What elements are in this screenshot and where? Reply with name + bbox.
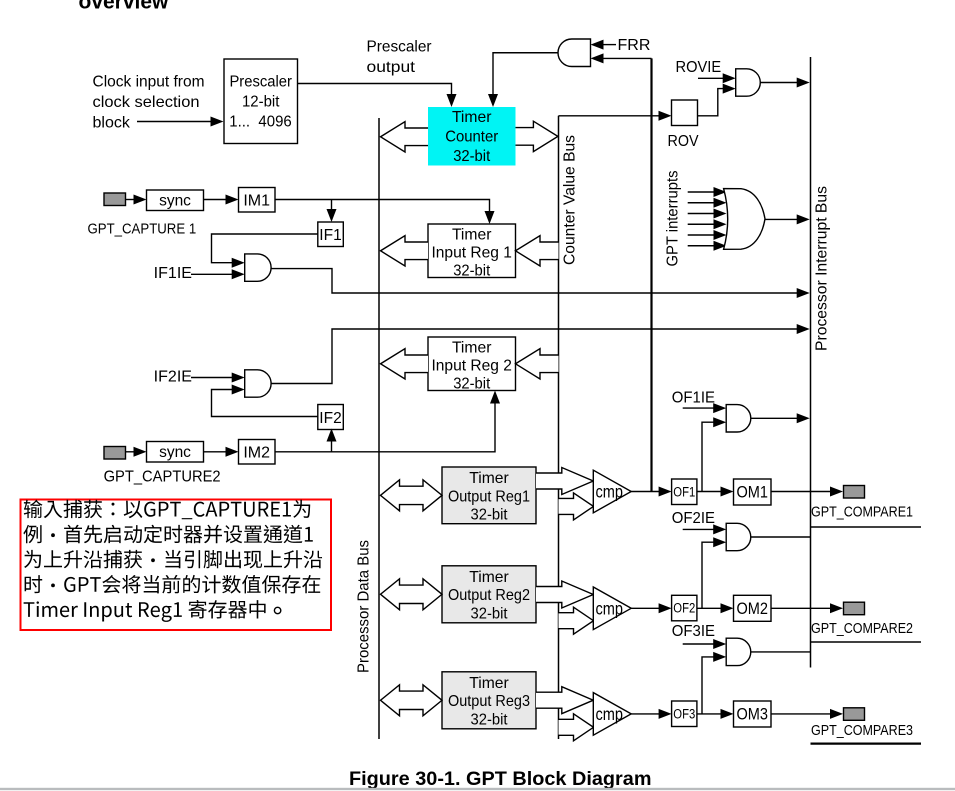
wire OF1 to OM1 xyxy=(697,491,721,493)
wire net-OF1match vertical feedback (x=651.5) xyxy=(650,58,652,491)
svg-text:Counter: Counter xyxy=(445,129,499,146)
svg-text:OM1: OM1 xyxy=(736,484,768,502)
svg-text:Timer: Timer xyxy=(469,569,509,586)
svg-text:ROV: ROV xyxy=(668,133,700,150)
svg-text:cmp: cmp xyxy=(596,482,624,502)
separator line under GPT_COMPARE2 xyxy=(811,641,922,643)
wire IF2IE to and-gate U5 top input xyxy=(191,377,233,379)
box IM1 xyxy=(239,188,276,213)
wire OF2 to OM2 xyxy=(697,607,721,609)
and-gate U6 OF1IE-interrupt xyxy=(726,405,751,432)
wire cmp3 output to OF3 xyxy=(631,713,659,715)
svg-text:GPT_COMPARE3: GPT_COMPARE3 xyxy=(811,722,913,739)
red annotation box xyxy=(21,500,332,631)
svg-text:IM2: IM2 xyxy=(243,445,270,462)
svg-text:32-bit: 32-bit xyxy=(453,148,491,165)
wires GPT interrupt inputs x6 into or-gate U3 xyxy=(688,191,715,193)
box IM2 xyxy=(239,440,276,465)
wire OF2IE label to and-gate U7 top input xyxy=(683,528,714,530)
bus-arrow Counter Value Bus to cmp2 (open, right) xyxy=(559,607,594,634)
bottom page rule (gray) xyxy=(0,788,955,790)
svg-text:Prescaler: Prescaler xyxy=(367,39,433,56)
wire Prescaler output to Timer Counter clk xyxy=(298,84,452,97)
wire FRR label to U1 top input xyxy=(603,44,617,46)
wire cmp2 output to OF2 xyxy=(631,607,659,609)
svg-text:OF1IE: OF1IE xyxy=(672,389,715,406)
wire U3 output to Processor Interrupt Bus xyxy=(765,218,798,220)
wire OF2 feedback to U7 bottom input xyxy=(702,542,714,608)
and-gate U1 FRR-restart (mirrored, faces left) xyxy=(558,39,590,67)
box OF2 (compare flag) xyxy=(672,595,697,621)
annotation text line 5: Timer Input Reg1 寄存器中。 xyxy=(24,600,266,622)
svg-text:cmp: cmp xyxy=(596,599,624,619)
pin GPT_COMPARE3 (gray pad) xyxy=(844,708,865,721)
svg-text:32-bit: 32-bit xyxy=(471,606,509,623)
or-gate U3 GPT-interrupts xyxy=(724,189,765,250)
svg-text:IF2IE: IF2IE xyxy=(154,369,192,386)
wire U7 output to Processor Interrupt Bus xyxy=(751,536,811,538)
bus-arrow Output Reg2 to Processor Data Bus (open, double) xyxy=(381,579,443,610)
wire IF1 to and-gate U4 top input xyxy=(212,234,318,263)
pin GPT_CAPTURE2 (gray pad) xyxy=(104,447,126,460)
annotation text line 3: 为上升沿捕获，当引脚出现上升沿 xyxy=(24,550,322,569)
svg-text:IF2: IF2 xyxy=(319,410,341,427)
bus-arrow Input Reg 1 to Processor Data Bus (open, left) xyxy=(381,236,429,266)
bus line Counter Value Bus xyxy=(558,116,560,739)
bus-arrow Timer Counter to Processor Data Bus (open, left) xyxy=(381,122,429,152)
svg-text:1... 4096: 1... 4096 xyxy=(229,114,292,131)
wire junction IM1-line to IF1 xyxy=(331,200,333,212)
box OM3 (output mode) xyxy=(734,701,772,727)
box ROV (rollover flag) xyxy=(672,100,698,126)
svg-text:clock selection: clock selection xyxy=(93,94,200,111)
svg-text:Timer: Timer xyxy=(452,109,492,126)
svg-text:Timer: Timer xyxy=(469,470,509,487)
svg-text:Prescaler: Prescaler xyxy=(229,74,292,91)
bus-arrow Output Reg3 to Processor Data Bus (open, double) xyxy=(381,685,443,716)
svg-text:OF3IE: OF3IE xyxy=(672,623,715,640)
wire sync2 to IM2 xyxy=(204,451,227,453)
svg-text:Clock input from: Clock input from xyxy=(93,74,205,91)
separator line under GPT_COMPARE1 xyxy=(811,526,922,528)
box sync2 xyxy=(147,442,204,463)
svg-text:Output Reg3: Output Reg3 xyxy=(448,693,530,710)
comparator cmp1 xyxy=(593,470,631,513)
bus-arrow Timer Counter to Counter Value Bus (open, right) xyxy=(516,121,558,151)
svg-text:OF1: OF1 xyxy=(673,484,695,499)
annotation text line 1: 输入捕获：以GPT_CAPTURE1为 xyxy=(24,500,310,520)
svg-text:OM3: OM3 xyxy=(736,706,768,724)
wire OF1IE label to and-gate U6 top input xyxy=(683,407,714,409)
annotation text line 4: 时，GPT会将当前的计数值保存在 xyxy=(25,575,321,594)
wire OF3 to OM3 xyxy=(697,713,721,715)
svg-text:IF1: IF1 xyxy=(319,227,341,244)
box OF3 (compare flag) xyxy=(672,701,697,727)
annotation text line 2: 例，首先启动定时器并设置通道1 xyxy=(23,525,312,544)
wire cmp1 output to OF1 xyxy=(631,491,659,493)
bus-arrow Output Reg1 to Processor Data Bus (open, double) xyxy=(381,480,443,511)
wire node-OF1match to U1 bottom input xyxy=(603,57,652,59)
wire U6 output to Processor Interrupt Bus xyxy=(751,417,798,419)
bus-arrow Output Reg3 to cmp3 (open, right) xyxy=(536,687,593,714)
svg-text:Figure 30-1. GPT Block Diagram: Figure 30-1. GPT Block Diagram xyxy=(349,769,652,790)
box Prescaler 12-bit 1...4096 xyxy=(224,59,298,144)
bus-arrow Counter Value Bus into Input Reg 1 (open, left) xyxy=(516,236,559,266)
wire IM2 to Timer Input Reg 2 xyxy=(275,403,495,452)
wire ROV to U2 bottom input xyxy=(698,89,724,116)
svg-text:Output Reg2: Output Reg2 xyxy=(448,587,530,604)
svg-text:Input Reg 2: Input Reg 2 xyxy=(431,358,512,375)
wire clock-input into Prescaler xyxy=(137,121,212,123)
and-gate U5 IF2-interrupt xyxy=(245,370,271,397)
svg-text:block: block xyxy=(93,115,131,132)
box sync1 xyxy=(147,190,204,211)
and-gate U2 ROVIE-interrupt xyxy=(736,69,761,96)
separator line under GPT_COMPARE3 xyxy=(811,742,922,744)
svg-text:OF2IE: OF2IE xyxy=(672,510,715,527)
svg-text:GPT_COMPARE2: GPT_COMPARE2 xyxy=(811,620,913,637)
wire sync1 to IM1 xyxy=(204,199,227,201)
bus line Processor Data Bus xyxy=(378,118,380,739)
and-gate U8 OF3IE-interrupt xyxy=(726,638,751,665)
wire OF3IE label to and-gate U8 top input xyxy=(683,643,714,645)
svg-text:Timer: Timer xyxy=(452,339,492,356)
svg-text:GPT_COMPARE1: GPT_COMPARE1 xyxy=(811,504,913,521)
comparator cmp3 xyxy=(593,693,631,736)
wire U1 output to Timer Counter reset xyxy=(493,53,558,96)
wire IF2 to U5 bottom input xyxy=(212,390,318,417)
wire U5 output to Processor Interrupt Bus xyxy=(271,329,798,384)
box IF1 (capture flag 1) xyxy=(318,222,344,247)
svg-text:Input Reg 1: Input Reg 1 xyxy=(431,245,512,262)
svg-text:overview: overview xyxy=(79,0,170,14)
wire Counter Value Bus to ROV xyxy=(559,115,660,117)
wire pin2 to sync2 xyxy=(126,451,135,453)
box Timer Input Reg 1 32-bit xyxy=(428,224,516,278)
svg-text:32-bit: 32-bit xyxy=(453,376,491,393)
svg-text:OF3: OF3 xyxy=(673,706,695,721)
bus-arrow Input Reg 2 to Processor Data Bus (open, left) xyxy=(381,349,429,379)
svg-text:cmp: cmp xyxy=(596,704,624,724)
svg-text:32-bit: 32-bit xyxy=(471,712,509,729)
svg-text:GPT_CAPTURE 1: GPT_CAPTURE 1 xyxy=(88,221,197,238)
svg-text:GPT_CAPTURE2: GPT_CAPTURE2 xyxy=(104,469,221,486)
and-gate U7 OF2IE-interrupt xyxy=(726,523,751,550)
bus line Processor Interrupt Bus xyxy=(810,57,812,668)
bus-arrow Output Reg1 to cmp1 (open, right) xyxy=(536,468,593,495)
wire U4 output to Processor Interrupt Bus xyxy=(271,269,798,293)
bus-arrow Output Reg2 to cmp2 (open, right) xyxy=(536,581,593,608)
wire U2 output to Processor Interrupt Bus xyxy=(760,82,797,84)
svg-text:GPT interrupts: GPT interrupts xyxy=(665,171,682,267)
svg-text:Output Reg1: Output Reg1 xyxy=(448,488,530,505)
wire IF1IE to U4 bottom input xyxy=(191,273,233,275)
pin GPT_COMPARE1 (gray pad) xyxy=(844,486,865,499)
svg-text:IM1: IM1 xyxy=(243,193,270,210)
wire U8 output to Processor Interrupt Bus xyxy=(751,651,811,653)
box Timer Output Reg1 32-bit (gray) xyxy=(442,467,536,524)
comparator cmp2 xyxy=(593,587,631,630)
svg-text:OF2: OF2 xyxy=(673,601,695,616)
box OM1 (output mode) xyxy=(734,479,772,505)
svg-text:sync: sync xyxy=(159,444,191,461)
wire OF3 feedback to U8 bottom input xyxy=(702,657,714,714)
svg-text:Counter Value Bus: Counter Value Bus xyxy=(562,135,579,265)
pin GPT_CAPTURE1 (gray pad) xyxy=(104,193,126,206)
bus-arrow Counter Value Bus to cmp1 (open, right) xyxy=(559,493,594,520)
svg-text:IF1IE: IF1IE xyxy=(154,265,192,282)
svg-text:FRR: FRR xyxy=(618,37,651,54)
svg-text:32-bit: 32-bit xyxy=(471,507,509,524)
svg-text:sync: sync xyxy=(159,192,191,209)
wire OM3 to GPT_COMPARE3 pin xyxy=(771,713,831,715)
svg-text:Processor Interrupt Bus: Processor Interrupt Bus xyxy=(814,186,831,351)
box Timer Output Reg3 32-bit (gray) xyxy=(442,672,536,729)
wire junction IM2-line to IF2 xyxy=(331,441,333,452)
bus-arrow Counter Value Bus into Input Reg 2 (open, left) xyxy=(516,349,559,379)
box Timer Counter 32-bit (cyan) xyxy=(428,107,516,166)
bus-arrow Counter Value Bus to cmp3 (open, right) xyxy=(559,714,594,741)
wire ROVIE to and-gate U2 top input xyxy=(698,77,724,79)
wire pin1 to sync1 xyxy=(126,199,135,201)
pin GPT_COMPARE2 (gray pad) xyxy=(844,602,865,615)
svg-text:Timer: Timer xyxy=(469,675,509,692)
wire IM1 to Timer Input Reg 1 xyxy=(275,200,490,214)
box IF2 (capture flag 2) xyxy=(318,405,344,430)
svg-text:Timer: Timer xyxy=(452,226,492,243)
svg-text:ROVIE: ROVIE xyxy=(676,59,722,76)
wire OM1 to GPT_COMPARE1 pin xyxy=(771,491,831,493)
wire OF1 feedback to U6 bottom input xyxy=(702,422,714,491)
box Timer Output Reg2 32-bit (gray) xyxy=(442,566,536,623)
box OM2 (output mode) xyxy=(734,595,772,621)
svg-text:32-bit: 32-bit xyxy=(453,263,491,280)
svg-text:output: output xyxy=(367,59,416,76)
box Timer Input Reg 2 32-bit xyxy=(428,337,516,391)
box OF1 (compare flag) xyxy=(672,479,697,505)
wire OM2 to GPT_COMPARE2 pin xyxy=(771,607,831,609)
svg-text:OM2: OM2 xyxy=(736,600,768,618)
and-gate U4 IF1-interrupt xyxy=(245,254,271,281)
svg-text:Processor Data Bus: Processor Data Bus xyxy=(356,540,373,673)
svg-text:12-bit: 12-bit xyxy=(242,94,280,111)
